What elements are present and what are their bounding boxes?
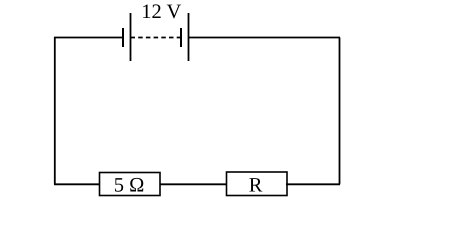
svg-text:5 Ω: 5 Ω — [114, 175, 145, 197]
svg-text:R: R — [249, 174, 263, 196]
battery B1: right cell long plate (positive) — [188, 13, 190, 61]
wire: bottom-right horizontal — [286, 183, 340, 185]
resistor R1 box (5 ohm) — [100, 173, 161, 196]
resistor R box — [227, 172, 288, 196]
wire: left vertical side — [54, 38, 56, 185]
wire: right vertical side — [339, 38, 341, 185]
wire: dashed link between battery cells — [131, 37, 182, 39]
svg-text:12 V: 12 V — [141, 1, 181, 23]
battery B1: right cell short plate (negative) — [180, 28, 182, 47]
wire: top-right horizontal from battery — [189, 37, 341, 39]
wire: bottom middle horizontal between resistors — [160, 183, 227, 185]
wire: top-left horizontal to battery — [54, 37, 123, 39]
battery B1: left cell short plate (negative) — [122, 28, 124, 47]
wire: bottom-left horizontal — [54, 183, 100, 185]
battery B1: left cell long plate (positive) — [130, 13, 132, 61]
